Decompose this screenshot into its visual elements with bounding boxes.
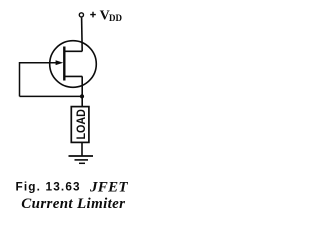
resistor LOAD box [71, 107, 89, 143]
transistor Q1 channel bar [63, 47, 65, 81]
terminal +VDD [79, 13, 83, 17]
caption title line 2 [21, 196, 125, 212]
caption title JFET [89, 180, 128, 196]
wire gate [20, 62, 58, 64]
wire drain lead [81, 18, 84, 52]
svg-text:JFET: JFET [89, 180, 128, 196]
wire feedback left vertical [19, 62, 21, 96]
svg-text:Current Limiter: Current Limiter [21, 196, 125, 212]
transistor Q1 drain bar [65, 50, 83, 52]
transistor Q1 JFET body [50, 41, 97, 88]
transistor Q1 gate arrow [56, 60, 64, 65]
svg-text:Fig. 13.63: Fig. 13.63 [16, 179, 81, 193]
svg-text:LOAD: LOAD [75, 109, 88, 139]
wire source lead [81, 76, 83, 106]
wire load to ground [81, 142, 83, 155]
wire feedback bottom horizontal [20, 95, 83, 97]
svg-text:DD: DD [109, 13, 122, 23]
label +VDD [90, 9, 122, 24]
transistor Q1 source bar [65, 75, 83, 77]
caption figure number [16, 179, 81, 193]
node source junction [80, 94, 84, 98]
ground [69, 156, 94, 163]
resistor LOAD label [75, 109, 88, 139]
